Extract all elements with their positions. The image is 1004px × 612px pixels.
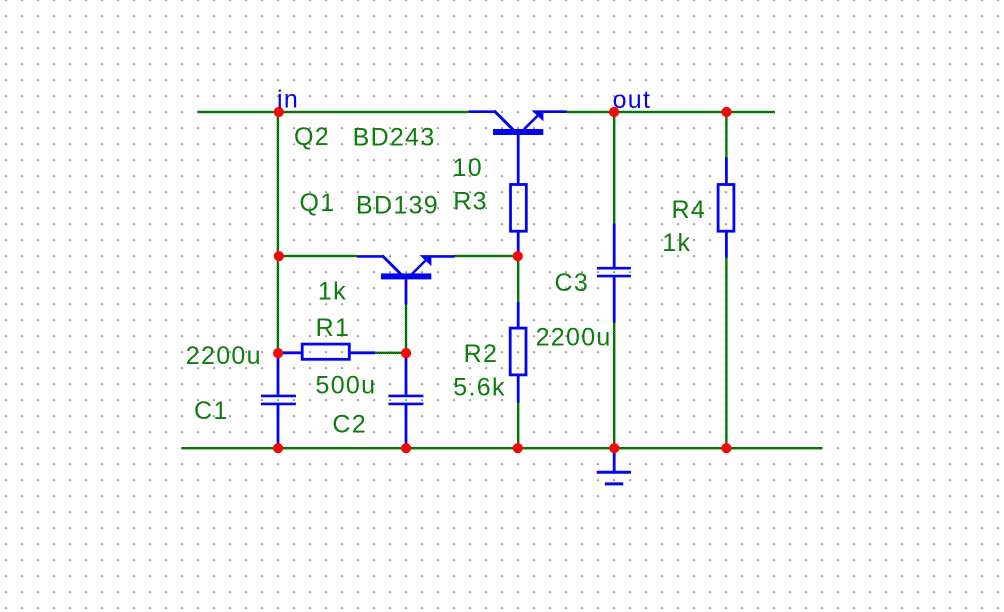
wire R1 right xyxy=(375,352,407,354)
svg-text:R3: R3 xyxy=(453,187,488,215)
svg-text:1k: 1k xyxy=(318,278,347,306)
svg-text:R2: R2 xyxy=(464,340,499,368)
junction node bottom C2 xyxy=(401,443,411,453)
junction node out xyxy=(609,107,619,117)
svg-text:Q2: Q2 xyxy=(294,123,330,151)
svg-text:BD243: BD243 xyxy=(353,124,436,152)
junction node bottom gnd xyxy=(609,443,619,453)
resistor R1 xyxy=(278,344,375,359)
wire Q1 base to R1 node xyxy=(405,304,407,353)
wire left vertical xyxy=(277,111,279,353)
wire middle horizontal right xyxy=(454,255,518,257)
junction node bottom R2 xyxy=(513,443,523,453)
wire C3 top xyxy=(613,111,615,224)
junction node in xyxy=(274,107,284,117)
svg-text:R4: R4 xyxy=(672,196,707,224)
svg-text:C1: C1 xyxy=(194,397,229,425)
ground xyxy=(597,448,631,484)
wire R2 bottom xyxy=(517,402,519,448)
capacitor C3 xyxy=(597,224,631,323)
wire C3 bottom xyxy=(613,322,615,448)
transistor Q2 xyxy=(469,110,567,184)
svg-text:10: 10 xyxy=(453,154,483,182)
wire middle horizontal left xyxy=(278,255,357,257)
capacitor C1 xyxy=(261,353,296,448)
svg-text:C2: C2 xyxy=(332,411,367,439)
wire bottom rail xyxy=(181,447,822,449)
junction node mid right xyxy=(513,251,523,261)
svg-text:C3: C3 xyxy=(555,269,590,297)
svg-text:R1: R1 xyxy=(316,314,351,342)
resistor R4 xyxy=(718,158,734,258)
wire R3-R2 vertical xyxy=(517,256,519,302)
junction node mid left xyxy=(274,251,284,261)
junction node bottom C1 xyxy=(273,443,283,453)
resistor R2 xyxy=(510,302,526,403)
svg-text:Q1: Q1 xyxy=(300,189,336,217)
wire R4 bottom xyxy=(725,257,727,448)
resistor R3 xyxy=(511,185,527,257)
svg-text:2200u: 2200u xyxy=(536,323,612,351)
wire top-right (out net) xyxy=(567,111,775,113)
svg-text:500u: 500u xyxy=(316,372,377,400)
junction node bottom R4 xyxy=(721,443,731,453)
transistor Q1 xyxy=(357,255,455,304)
svg-text:5.6k: 5.6k xyxy=(453,374,505,402)
junction node top R4 xyxy=(721,107,731,117)
capacitor C2 xyxy=(388,353,423,448)
junction node R1 left xyxy=(273,348,283,358)
junction node R1 right xyxy=(401,348,411,358)
svg-text:in: in xyxy=(277,86,299,114)
wire top-left (in net) xyxy=(197,111,468,113)
svg-text:BD139: BD139 xyxy=(356,192,439,220)
svg-text:2200u: 2200u xyxy=(186,342,262,370)
svg-text:1k: 1k xyxy=(662,229,691,257)
wire R4 top xyxy=(725,111,727,158)
svg-text:out: out xyxy=(613,86,652,114)
